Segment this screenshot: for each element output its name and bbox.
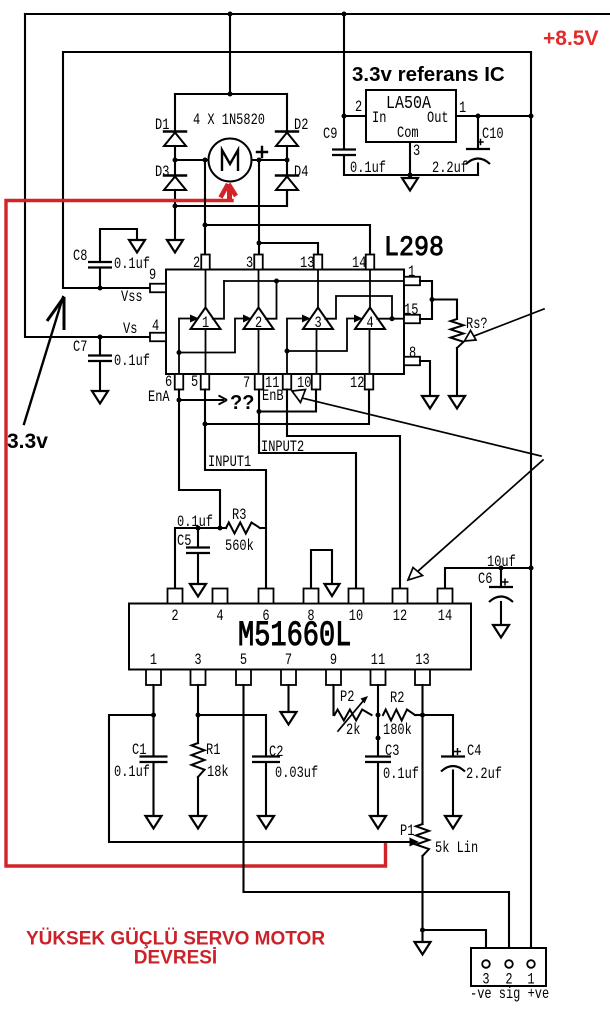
ground C7	[92, 391, 108, 404]
label C3	[385, 743, 399, 761]
svg-text:C10: C10	[482, 126, 504, 144]
label R3	[232, 507, 246, 525]
svg-text:P1: P1	[400, 823, 414, 841]
wire motor right to pin3 pin13	[259, 160, 318, 255]
label C1	[132, 742, 146, 760]
svg-text:5: 5	[240, 652, 247, 670]
label R2 value	[383, 722, 412, 740]
wire A4 output to pin15	[377, 318, 404, 320]
label R3 value	[225, 538, 254, 556]
wire EnB	[287, 390, 400, 589]
diode D2	[276, 94, 298, 160]
svg-text:0.1uf: 0.1uf	[114, 764, 150, 782]
label M51660L pin 9 bottom	[330, 652, 337, 670]
ground pin8 M51660L arrow	[325, 584, 340, 596]
label P2	[340, 689, 354, 707]
label C10	[482, 126, 504, 144]
node pin1	[151, 713, 156, 718]
svg-text:6: 6	[262, 608, 269, 626]
wire to Rs	[432, 300, 457, 320]
op-amp A2	[244, 270, 274, 375]
node bridge right	[285, 158, 290, 163]
svg-text:-ve sig +ve: -ve sig +ve	[470, 986, 549, 1004]
label connector pins	[470, 986, 549, 1004]
wire bridge bottom	[175, 190, 287, 206]
wire A1 output	[213, 281, 224, 319]
capacitor C7	[88, 337, 112, 391]
svg-text:Com: Com	[397, 125, 419, 143]
capacitor C10	[466, 116, 490, 175]
red arrow to motor	[221, 184, 237, 202]
node A2 output	[274, 279, 279, 284]
label pin13 L298	[300, 255, 314, 273]
label M51660L pin 14 top	[438, 608, 452, 626]
svg-text:0.1uf: 0.1uf	[114, 256, 150, 274]
label 3.3v	[7, 430, 48, 453]
label 3.3v referans IC	[352, 63, 505, 86]
svg-text:C4: C4	[467, 743, 481, 761]
node motor right tap	[257, 158, 262, 163]
arrow into A3	[302, 315, 311, 323]
motor M1	[209, 139, 252, 182]
svg-text:13: 13	[300, 255, 314, 273]
wire pin5-pin12 bridge	[205, 390, 369, 425]
wire motor left to pin2 pin14	[205, 160, 370, 255]
wire P1 to connector -ve	[423, 930, 487, 959]
wire Com pin	[344, 142, 478, 175]
diode D1	[164, 94, 186, 160]
node C6 tap	[499, 566, 504, 571]
wire A3-A4 output bridge	[325, 296, 392, 319]
ground Rs	[449, 396, 465, 409]
node R2-pin13	[420, 713, 425, 718]
svg-text:10: 10	[349, 608, 363, 626]
svg-text:D1: D1	[155, 117, 169, 135]
wire pin3 to C2	[198, 715, 266, 756]
node EnA	[177, 398, 182, 403]
capacitor C8	[88, 229, 137, 288]
wire regulator input	[343, 14, 345, 149]
node Vs-C7	[98, 335, 103, 340]
svg-text:4 X 1N5820: 4 X 1N5820	[193, 112, 265, 130]
label pin14 L298	[352, 255, 366, 273]
svg-text:7: 7	[285, 652, 292, 670]
svg-text:D2: D2	[294, 117, 308, 135]
wire pin8 L298 to ground	[420, 361, 430, 396]
label C5	[177, 533, 191, 551]
svg-text:INPUT2: INPUT2	[261, 439, 304, 457]
node Out-rail	[529, 114, 534, 119]
node A4 output	[390, 316, 395, 321]
label M51660L pin 7 bottom	[285, 652, 292, 670]
svg-text:180k: 180k	[383, 722, 412, 740]
svg-text:R1: R1	[206, 742, 220, 760]
node bridge top	[228, 92, 233, 97]
capacitor C6	[489, 568, 513, 625]
label P2 value	[346, 722, 360, 740]
ground C6	[493, 625, 509, 638]
label connector 1	[527, 971, 534, 989]
node C5 tap	[196, 526, 201, 531]
node P1 bottom	[420, 928, 425, 933]
node Com junction	[408, 173, 413, 178]
svg-text:C5: C5	[177, 533, 191, 551]
svg-text:9: 9	[149, 267, 156, 285]
label pin4	[152, 318, 159, 336]
ground P1	[415, 930, 431, 955]
node bridge bottom left	[173, 204, 178, 209]
label C9 value	[350, 160, 386, 178]
label pin3 L298	[246, 255, 253, 273]
resistor R1	[192, 743, 205, 816]
svg-text:1: 1	[459, 100, 466, 118]
svg-text:8: 8	[409, 345, 416, 363]
label pin6 L298	[165, 374, 172, 392]
potentiometer P1	[416, 824, 429, 930]
ground pin7 M51660L	[281, 712, 297, 725]
svg-text:14: 14	[438, 608, 452, 626]
svg-text:C3: C3	[385, 743, 399, 761]
capacitor C9	[332, 150, 356, 176]
node EnB internal	[285, 349, 290, 354]
ic U3 M51660L body	[129, 604, 471, 670]
label motor +	[257, 147, 267, 157]
svg-text:0.03uf: 0.03uf	[275, 765, 318, 783]
label C10 value	[432, 160, 468, 178]
svg-text:12: 12	[393, 608, 407, 626]
svg-text:1: 1	[408, 264, 415, 282]
ground C2	[258, 816, 274, 829]
svg-text:DEVRESİ: DEVRESİ	[134, 948, 217, 969]
svg-text:C1: C1	[132, 742, 146, 760]
label D1	[155, 117, 169, 135]
svg-text:5k Lin: 5k Lin	[435, 840, 478, 858]
label C4 value	[466, 766, 502, 784]
power label +8.5V	[543, 27, 598, 50]
svg-text:D4: D4	[294, 164, 308, 182]
ground C1	[146, 816, 162, 829]
label M51660L pin 8 top	[307, 608, 314, 626]
wire +8.5V top rail	[25, 13, 610, 15]
ground pin8 L298	[422, 396, 438, 409]
node In-C9	[342, 114, 347, 119]
wire EnA	[179, 390, 220, 529]
svg-text:C7: C7	[73, 339, 87, 357]
potentiometer P2	[335, 696, 372, 731]
wire 3.3v rail (Vss feed)	[63, 52, 531, 288]
svg-text:2k: 2k	[346, 722, 360, 740]
svg-text:C2: C2	[269, 744, 283, 762]
wire bridge top	[175, 93, 287, 95]
node input1 tap	[203, 422, 208, 427]
svg-text:C9: C9	[323, 126, 337, 144]
node rail C6	[529, 566, 534, 571]
wire red motor loop	[6, 201, 386, 867]
label R1	[206, 742, 220, 760]
wire +3.3v right rail to connector	[530, 52, 532, 959]
wire pin1 to C1 and wiper	[109, 685, 419, 847]
query arrow to Rs	[465, 309, 545, 341]
connector J1	[471, 948, 546, 986]
svg-text:15: 15	[404, 302, 418, 320]
label pin15 L298	[404, 302, 418, 320]
wire Out pin	[456, 115, 531, 117]
svg-text:3.3v referans IC: 3.3v referans IC	[352, 63, 505, 86]
arrow into A1	[190, 315, 199, 323]
pin boxes L298	[150, 255, 420, 390]
label M51660L pin 3 bottom	[194, 652, 201, 670]
label Rs?	[466, 316, 488, 334]
label C1 value	[114, 764, 150, 782]
svg-text:1: 1	[150, 652, 157, 670]
node P2-R2-pin11	[376, 713, 381, 718]
label pin1 L298	[408, 264, 415, 282]
wire pin7-pin10 bridge	[259, 390, 316, 412]
svg-text:Vss: Vss	[121, 289, 143, 307]
label C3 value	[383, 766, 419, 784]
ground bridge left	[167, 206, 183, 253]
svg-text:Vs: Vs	[123, 321, 137, 339]
svg-text:??: ??	[230, 392, 254, 414]
label P1 value	[435, 840, 478, 858]
svg-text:7: 7	[243, 375, 250, 393]
svg-text:8: 8	[307, 608, 314, 626]
op-amp A3	[303, 270, 333, 375]
svg-text:YÜKSEK GÜÇLÜ SERVO MOTOR: YÜKSEK GÜÇLÜ SERVO MOTOR	[26, 929, 325, 950]
label pin2 LA50A	[355, 99, 362, 117]
label M51660L pin 5 bottom	[240, 652, 247, 670]
wire INPUT2	[259, 390, 356, 589]
svg-text:18k: 18k	[207, 764, 229, 782]
arrow 3.3v pointer	[24, 297, 64, 424]
node C3 tap	[376, 736, 381, 741]
capacitor C4	[441, 757, 465, 817]
wire left +8.5V rail to Vs	[25, 14, 150, 337]
node pin3/13 tap	[257, 241, 262, 246]
svg-text:P2: P2	[340, 689, 354, 707]
regulator U1 LA50A	[366, 90, 456, 143]
label M51660L pin 4 top	[216, 608, 223, 626]
resistor R2	[383, 710, 423, 721]
svg-text:+8.5V: +8.5V	[543, 27, 598, 50]
resistor R3	[220, 523, 266, 534]
label pin1 LA50A	[459, 100, 466, 118]
ground R1	[190, 816, 206, 829]
label C7 value	[114, 353, 150, 371]
svg-text:11: 11	[371, 652, 385, 670]
label M51660L pin 11 bottom	[371, 652, 385, 670]
arrow into A2	[243, 315, 252, 323]
svg-text:EnA: EnA	[148, 389, 170, 407]
node top rail to regulator	[342, 12, 347, 17]
svg-text:M51660L: M51660L	[238, 617, 351, 656]
node pin3	[196, 713, 201, 718]
op-amp A1	[191, 270, 221, 375]
svg-text:0.1uf: 0.1uf	[177, 514, 213, 532]
ground C3	[370, 816, 386, 829]
label M51660L	[238, 617, 351, 656]
svg-text:L298: L298	[384, 232, 444, 263]
label pin5 L298	[191, 374, 198, 392]
label EnB	[262, 388, 284, 406]
svg-text:LA50A: LA50A	[386, 94, 432, 115]
label R1 value	[207, 764, 229, 782]
label 4 X 1N5820	[193, 112, 265, 130]
label Vs	[123, 321, 137, 339]
svg-text:9: 9	[330, 652, 337, 670]
svg-text:560k: 560k	[225, 538, 254, 556]
ic U2 L298 body	[166, 270, 404, 375]
label EnA	[148, 389, 170, 407]
node bridge left	[173, 158, 178, 163]
label C9	[323, 126, 337, 144]
label M51660L pin 2 top	[171, 608, 178, 626]
label connector 2	[505, 971, 512, 989]
svg-text:2.2uf: 2.2uf	[466, 766, 502, 784]
svg-text:3: 3	[413, 143, 420, 161]
capacitor C5	[186, 528, 210, 584]
node sense tap	[430, 297, 435, 302]
svg-text:C6: C6	[478, 571, 492, 589]
op-amp A4	[355, 270, 385, 375]
wire INPUT1	[205, 390, 266, 589]
svg-text:2: 2	[171, 608, 178, 626]
svg-text:4: 4	[216, 608, 223, 626]
label M51660L pin 12 top	[393, 608, 407, 626]
svg-text:3.3v: 3.3v	[7, 430, 48, 453]
title line 1	[26, 929, 325, 950]
node EnA internal	[177, 350, 182, 355]
label INPUT1	[208, 454, 251, 472]
label pin3 LA50A	[413, 143, 420, 161]
svg-text:3: 3	[194, 652, 201, 670]
label M51660L pin 10 top	[349, 608, 363, 626]
svg-text:R3: R3	[232, 507, 246, 525]
diode D4	[276, 160, 298, 206]
wire EnB internal	[287, 319, 355, 375]
label C8 value	[114, 256, 150, 274]
node top rail to bridge	[228, 12, 233, 17]
svg-text:2: 2	[193, 255, 200, 273]
label pin2 L298	[193, 255, 200, 273]
label D3	[155, 164, 169, 182]
wire A2 output	[266, 281, 277, 319]
wire motor left	[175, 159, 208, 161]
arrow EnA query	[179, 396, 227, 405]
svg-text:14: 14	[352, 255, 366, 273]
pin boxes M51660L	[146, 589, 453, 686]
svg-text:0.1uf: 0.1uf	[383, 766, 419, 784]
wire to C4	[423, 715, 454, 756]
svg-text:0.1uf: 0.1uf	[114, 353, 150, 371]
svg-text:Out: Out	[427, 110, 449, 128]
ground C8	[129, 240, 145, 253]
label pin9	[149, 267, 156, 285]
node input2 tap	[257, 409, 262, 414]
label pin8 L298	[409, 345, 416, 363]
label C10 plus	[477, 139, 483, 145]
label INPUT2	[261, 439, 304, 457]
svg-text:C8: C8	[73, 248, 87, 266]
label M51660L pin 13 bottom	[415, 652, 429, 670]
label C7	[73, 339, 87, 357]
ground C4	[445, 816, 461, 829]
capacitor C2	[252, 757, 280, 817]
wire amp rail to pin1	[224, 280, 404, 282]
wire pin11 to C3	[377, 685, 379, 756]
title line 2	[134, 948, 217, 969]
wire bridge feed	[229, 14, 231, 94]
svg-text:INPUT1: INPUT1	[208, 454, 251, 472]
wire pin5 to signal	[244, 685, 510, 959]
label C6	[478, 571, 492, 589]
svg-text:R2: R2	[390, 690, 404, 708]
label D4	[294, 164, 308, 182]
label pin10 L298	[297, 375, 311, 393]
wire pin2 M51660L rail	[175, 528, 220, 589]
wire pin14 M51660L to rail	[445, 568, 531, 589]
svg-text:D3: D3	[155, 164, 169, 182]
capacitor C1	[140, 715, 168, 816]
label C6 plus	[502, 579, 509, 586]
svg-text:3: 3	[315, 315, 322, 333]
label pin12 L298	[350, 375, 364, 393]
svg-text:12: 12	[350, 375, 364, 393]
node Out-C10	[476, 114, 481, 119]
diode D3	[164, 160, 186, 206]
svg-text:5: 5	[191, 374, 198, 392]
wire pin1-pin15 tie	[420, 281, 432, 319]
wire pin9 to P2	[332, 685, 334, 715]
label C2 value	[275, 765, 318, 783]
label C5 value	[177, 514, 213, 532]
wire pin7 stub	[287, 685, 289, 712]
svg-text:In: In	[372, 110, 386, 128]
label M51660L pin 1 bottom	[150, 652, 157, 670]
label pin7 L298	[243, 375, 250, 393]
label P1	[400, 823, 414, 841]
wire pin13 to P1	[421, 685, 423, 824]
capacitor C3	[365, 757, 391, 817]
ground C5	[190, 584, 206, 597]
svg-text:2: 2	[355, 99, 362, 117]
label C8	[73, 248, 87, 266]
query arrow to pin12 M51660L	[408, 460, 543, 580]
label Vss	[121, 289, 143, 307]
label pin11 L298	[265, 375, 279, 393]
label M51660L pin 6 top	[262, 608, 269, 626]
wire motor right	[253, 159, 287, 161]
resistor Rs	[451, 319, 464, 396]
svg-text:13: 13	[415, 652, 429, 670]
label R2	[390, 690, 404, 708]
node pin2/14 tap	[203, 223, 208, 228]
svg-text:EnB: EnB	[262, 388, 284, 406]
label C6 value	[487, 554, 516, 572]
node motor left tap	[203, 158, 208, 163]
ground regulator	[402, 178, 418, 191]
svg-text:Rs?: Rs?	[466, 316, 488, 334]
label connector 3	[482, 971, 489, 989]
label C4	[467, 743, 481, 761]
svg-text:3: 3	[246, 255, 253, 273]
label D2	[294, 117, 308, 135]
label C2	[269, 744, 283, 762]
node Vss-C8	[98, 286, 103, 291]
label C4 plus	[454, 748, 461, 755]
arrow into A4	[354, 315, 363, 323]
wire pin3	[197, 685, 199, 743]
